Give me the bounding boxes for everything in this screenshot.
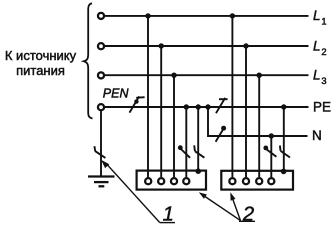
- svg-text:1: 1: [163, 204, 174, 226]
- svg-text:L: L: [313, 8, 321, 23]
- svg-text:N: N: [312, 128, 322, 143]
- svg-text:2: 2: [242, 204, 254, 226]
- svg-text:PE: PE: [313, 100, 331, 115]
- svg-text:2: 2: [321, 46, 326, 57]
- svg-text:1: 1: [321, 15, 326, 26]
- svg-text:PEN: PEN: [103, 86, 130, 100]
- svg-text:питания: питания: [16, 63, 65, 78]
- svg-text:L: L: [313, 68, 321, 83]
- svg-text:L: L: [313, 39, 321, 54]
- svg-text:3: 3: [321, 75, 326, 86]
- svg-text:К источнику: К источнику: [5, 48, 77, 63]
